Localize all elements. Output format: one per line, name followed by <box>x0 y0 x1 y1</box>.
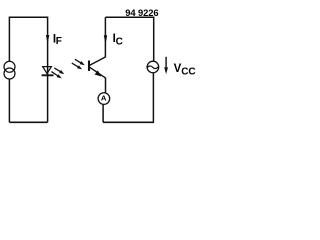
light arrow 4 (into transistor lower) <box>72 63 82 69</box>
current source CS1 <box>4 61 15 79</box>
voltage arrow VCC <box>164 57 168 74</box>
emitter arrowhead <box>95 70 102 76</box>
wire: LED branch vertical <box>47 17 49 123</box>
wire: emitter to ammeter <box>105 78 107 93</box>
light arrow 3 (into transistor upper) <box>75 59 85 65</box>
label VCC <box>174 63 196 78</box>
light arrow 2 (LED emission lower) <box>51 72 61 79</box>
light arrow 1 (LED emission upper) <box>54 68 64 74</box>
base bar <box>88 61 90 72</box>
wire: right loop bottom <box>103 121 154 123</box>
current arrow IF <box>46 35 49 44</box>
label IF <box>53 33 62 47</box>
wire: right rail upper <box>153 17 155 62</box>
voltage source V1 <box>147 61 159 73</box>
collector diagonal <box>90 57 106 65</box>
current arrow IC <box>104 35 107 44</box>
wire: left loop bottom <box>9 121 47 123</box>
wire: right loop top <box>105 16 153 18</box>
wire: collector to top rail <box>104 17 106 57</box>
ammeter A1 <box>98 93 110 105</box>
phototransistor Q1 <box>89 57 106 78</box>
wire: left loop top <box>9 16 47 18</box>
wire: left loop left rail upper <box>8 17 10 62</box>
svg-text:A: A <box>101 94 107 103</box>
svg-text:F: F <box>56 36 62 47</box>
wire: right rail lower <box>152 73 154 122</box>
svg-text:94 9226: 94 9226 <box>125 7 158 18</box>
wire: left loop left rail lower <box>8 79 10 122</box>
wire: ammeter to bottom <box>102 105 104 123</box>
svg-text:CC: CC <box>181 67 195 78</box>
LED D1 <box>42 67 54 76</box>
emitter diagonal <box>90 67 106 78</box>
label IC <box>113 33 123 47</box>
svg-text:C: C <box>116 36 123 47</box>
